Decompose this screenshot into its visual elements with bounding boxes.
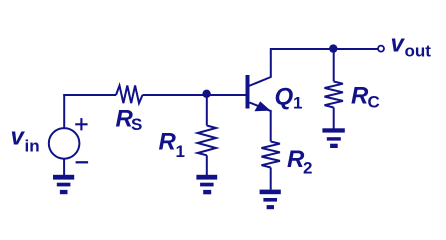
svg-text:v: v	[391, 31, 406, 58]
svg-text:1: 1	[293, 94, 302, 113]
svg-text:in: in	[25, 137, 40, 156]
svg-text:1: 1	[176, 142, 185, 161]
svg-text:out: out	[405, 41, 432, 60]
svg-text:C: C	[368, 93, 380, 112]
svg-text:2: 2	[303, 159, 312, 178]
svg-text:Q: Q	[275, 83, 294, 110]
svg-text:R: R	[159, 128, 177, 155]
svg-text:S: S	[131, 115, 142, 134]
svg-text:v: v	[11, 124, 26, 151]
svg-text:R: R	[351, 83, 369, 110]
